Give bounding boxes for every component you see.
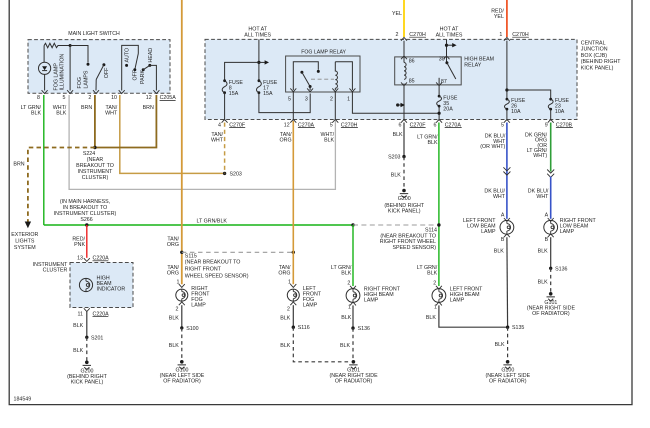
svg-text:BLK: BLK [494, 249, 504, 255]
node fuse36 junction [438, 112, 441, 115]
splice S201 [85, 336, 88, 339]
svg-text:10A: 10A [555, 109, 565, 115]
svg-text:BLK: BLK [324, 138, 334, 144]
svg-text:OF RADIATOR): OF RADIATOR) [489, 379, 527, 385]
svg-text:LAMP: LAMP [450, 298, 465, 304]
illumination lamp symbol [43, 46, 45, 63]
svg-text:BLK: BLK [56, 110, 66, 116]
svg-text:ORG: ORG [167, 242, 179, 248]
svg-text:BOX (CJB): BOX (CJB) [581, 53, 607, 59]
wire BLK dashed to G101 right [550, 268, 552, 292]
svg-text:BLK: BLK [73, 348, 83, 354]
svg-text:1: 1 [499, 32, 502, 38]
ground G200 left [85, 361, 89, 365]
svg-text:S100: S100 [186, 326, 198, 332]
splice S114 [437, 223, 440, 226]
svg-text:SPEED SENSOR): SPEED SENSOR) [392, 245, 436, 251]
svg-text:LAMP: LAMP [364, 298, 379, 304]
wire YEL from top [403, 0, 405, 37]
wire dashed link to S114 [353, 224, 439, 226]
svg-text:SYSTEM: SYSTEM [14, 245, 36, 251]
wire relay pin 5 to C270A-12 [292, 92, 294, 120]
svg-text:5: 5 [63, 95, 66, 101]
svg-text:PARK: PARK [140, 70, 146, 84]
svg-text:OFF: OFF [104, 67, 110, 78]
wire TAN/ORG dashed branch to left fog [182, 251, 293, 253]
central junction box [205, 39, 577, 119]
svg-text:6: 6 [434, 122, 437, 128]
svg-text:9: 9 [545, 122, 548, 128]
svg-text:2: 2 [330, 97, 333, 103]
svg-text:2: 2 [347, 280, 350, 286]
svg-text:2: 2 [176, 307, 179, 313]
wire park to head [143, 65, 150, 69]
fuse 17 15A [258, 79, 261, 82]
hbr switch blade [445, 61, 448, 64]
svg-text:S266: S266 [80, 217, 92, 223]
svg-text:CLUSTER): CLUSTER) [82, 175, 109, 181]
ground G100 left of radiator [180, 360, 184, 364]
wire BLK right fog to S100 [181, 305, 183, 328]
svg-text:PNK: PNK [74, 242, 85, 248]
fuse 8 15A [223, 79, 226, 82]
wire LT GRN/BLK C270A-6 to left high beam [438, 123, 440, 287]
svg-text:FOG LAMP: FOG LAMP [53, 63, 59, 91]
splice S115 [180, 251, 183, 254]
svg-text:S136: S136 [358, 326, 370, 332]
svg-text:OF RADIATOR): OF RADIATOR) [163, 379, 201, 385]
wire TAN/ORG from top of page [181, 0, 183, 284]
switch blade pin 2 [96, 65, 104, 80]
svg-text:S201: S201 [91, 335, 103, 341]
svg-text:8: 8 [37, 95, 40, 101]
relay switch blade [300, 71, 303, 74]
svg-text:10A: 10A [511, 109, 521, 115]
svg-text:4: 4 [218, 122, 221, 128]
wire BLK left fog to S116 [292, 305, 294, 327]
wire junction to fog contact [70, 46, 88, 63]
svg-text:(OR WHT): (OR WHT) [480, 144, 505, 150]
wire fuse 17 to relay pin 3 [259, 93, 310, 113]
wire LT GRN/BLK drop to right high beam [352, 225, 354, 286]
wire TAN/ORG from C270A-12 to left fog lamp [292, 121, 294, 284]
wire TAN/WHT from pin 10 [120, 95, 225, 173]
svg-text:BLK: BLK [340, 343, 350, 349]
splice S224 [93, 146, 96, 149]
inline connector left low beam [503, 167, 510, 175]
hbr pin 87 [438, 78, 440, 85]
svg-text:WHT: WHT [105, 110, 118, 116]
svg-text:G200: G200 [398, 196, 411, 202]
svg-text:A: A [545, 212, 549, 218]
svg-text:BLK: BLK [538, 249, 548, 255]
svg-text:ALL TIMES: ALL TIMES [436, 33, 463, 39]
wire resistor to junction [61, 45, 70, 47]
auto contact dot [125, 64, 128, 67]
wire LT GRN/BLK from pin 8 [43, 95, 45, 225]
svg-text:(NEAR BREAKOUT TO: (NEAR BREAKOUT TO [185, 259, 241, 265]
wire DK BLU/WHT to right low beam [550, 177, 552, 219]
svg-text:ORG: ORG [278, 270, 290, 276]
svg-text:S203: S203 [230, 171, 242, 177]
wire BLK right high beam to S136 [352, 305, 354, 328]
svg-text:15A: 15A [263, 91, 273, 97]
svg-text:BLK: BLK [341, 270, 351, 276]
svg-text:S135: S135 [512, 325, 524, 331]
wire BRN from pin 12 [95, 95, 156, 148]
svg-text:YEL: YEL [392, 11, 402, 17]
wire relay pin 1 to fuse 36 node [352, 92, 439, 114]
svg-text:LAMPS: LAMPS [84, 70, 90, 88]
svg-text:YEL: YEL [494, 14, 504, 20]
wire C270H-1 to low beam fuses [506, 41, 508, 99]
svg-text:85: 85 [409, 79, 415, 85]
wire BLK right low beam to S136 [550, 237, 552, 268]
wire BLK dashed to G200 [86, 337, 88, 360]
svg-text:A: A [501, 212, 505, 218]
wire 85 to C270F-6 [403, 86, 405, 120]
wire DK BLU/WHT to left low beam [506, 123, 508, 219]
park contact dot [142, 68, 145, 71]
node dot right high beam tap [351, 223, 354, 226]
fog lamps contact dot [87, 63, 90, 66]
svg-text:30: 30 [439, 57, 445, 63]
svg-text:BLK: BLK [341, 315, 351, 321]
pin arrows at switch bottom [42, 90, 160, 93]
svg-text:LIGHTS: LIGHTS [15, 239, 35, 245]
svg-text:LAMP: LAMP [560, 229, 575, 235]
wire LT GRN/BLK horizontal main [44, 224, 353, 226]
ground G100 right column [506, 360, 510, 364]
svg-text:BLK: BLK [280, 315, 290, 321]
ground G200 right [402, 189, 406, 193]
wire WHT/BLK from pin 5 [69, 95, 335, 189]
svg-text:FOG LAMP RELAY: FOG LAMP RELAY [301, 49, 346, 55]
svg-text:13: 13 [77, 256, 83, 262]
svg-text:2: 2 [396, 32, 399, 38]
fuse 26 10A [506, 98, 509, 101]
svg-text:RIGHT FRONT: RIGHT FRONT [185, 266, 222, 272]
wire BLK left high beam to S135 [439, 305, 508, 327]
svg-text:KICK PANEL): KICK PANEL) [388, 209, 421, 215]
wire BLK left low beam to S135 [506, 237, 509, 327]
relay pin arrows [290, 88, 355, 91]
splice S135 [506, 326, 509, 329]
svg-text:(BEHIND RIGHT: (BEHIND RIGHT [581, 59, 621, 65]
high beam indicator lamp [79, 278, 92, 291]
wire BLK cluster to S201 [86, 312, 88, 338]
svg-text:WHT): WHT) [533, 153, 547, 159]
svg-text:FOG: FOG [77, 77, 83, 88]
relay dashed actuator link [311, 78, 334, 80]
splice S203 right [402, 155, 405, 158]
relay pin 5 contact [293, 62, 318, 90]
resistor (fog lamp illumination) [44, 43, 61, 47]
wire relay pin 2 to C270H-5 [334, 92, 336, 120]
wire BLK C270F-6 to S203 [403, 123, 405, 157]
wire BLK dashed to G100 [181, 328, 183, 360]
splice S116 [292, 326, 295, 329]
svg-text:12: 12 [284, 122, 290, 128]
wire BLK dashed to G100 [507, 327, 509, 360]
svg-text:1: 1 [348, 305, 351, 311]
svg-text:5: 5 [330, 122, 333, 128]
wire BRN dashed to exterior lights [28, 148, 95, 222]
svg-text:184549: 184549 [14, 397, 32, 403]
connector chevrons at CJB bottom [222, 119, 554, 122]
svg-text:BLK: BLK [495, 342, 505, 348]
hbr coil [403, 41, 405, 63]
wire DK GRN/ORG from fuse 23 [550, 123, 552, 172]
svg-text:2: 2 [88, 95, 91, 101]
wire TAN/WHT dashed C270F-4 to S203 [224, 123, 226, 174]
selector frame to pin 10 [122, 45, 139, 90]
fuse 23 10A [549, 98, 552, 101]
svg-text:WHT: WHT [493, 194, 506, 200]
svg-text:20A: 20A [443, 107, 453, 113]
svg-text:1: 1 [434, 305, 437, 311]
svg-text:ORG: ORG [280, 138, 292, 144]
ground G101 right column [549, 292, 553, 296]
ground G101 right of radiator [352, 360, 356, 364]
wire hot feed [258, 39, 260, 80]
fuse 36 20A [438, 95, 441, 98]
off contact dot [102, 63, 105, 66]
svg-text:CENTRAL: CENTRAL [581, 40, 606, 46]
svg-text:BLK: BLK [169, 343, 179, 349]
wire BLK dashed to G101 [293, 327, 351, 362]
svg-text:LAMP: LAMP [481, 229, 496, 235]
svg-text:LAMP: LAMP [191, 303, 206, 309]
svg-text:ORG: ORG [167, 270, 179, 276]
svg-text:BRN: BRN [143, 105, 154, 111]
svg-text:BLK: BLK [280, 343, 290, 349]
svg-text:BRN: BRN [13, 162, 24, 168]
svg-text:RELAY: RELAY [464, 62, 481, 68]
wire 87 to fuse 36 [438, 86, 440, 96]
svg-text:87: 87 [441, 79, 447, 85]
wire RED/YEL from top [506, 0, 508, 37]
svg-text:MAIN LIGHT SWITCH: MAIN LIGHT SWITCH [68, 31, 120, 37]
splice S203 (tan) [223, 172, 226, 175]
svg-text:OF RADIATOR): OF RADIATOR) [532, 311, 570, 317]
wire BRN from pin 2 [94, 95, 96, 148]
svg-text:86: 86 [409, 58, 415, 64]
svg-text:BLK: BLK [426, 315, 436, 321]
splice S136 right [549, 267, 552, 270]
svg-text:BLK: BLK [538, 280, 548, 286]
wire RED/PNK [86, 225, 88, 258]
hbr pin 30 feed [446, 39, 448, 62]
svg-text:OFF: OFF [132, 69, 138, 80]
svg-text:11: 11 [78, 311, 84, 317]
relay coil [335, 62, 337, 88]
main light switch box [28, 40, 170, 94]
svg-text:KICK PANEL): KICK PANEL) [581, 66, 614, 72]
wire junction to pin 5 [69, 46, 71, 91]
svg-text:LT GRN/BLK: LT GRN/BLK [197, 219, 228, 225]
svg-text:AUTO: AUTO [125, 48, 131, 63]
svg-text:BLK: BLK [73, 323, 83, 329]
svg-text:B: B [501, 237, 505, 243]
svg-text:WHEEL SPEED SENSOR): WHEEL SPEED SENSOR) [185, 273, 249, 279]
svg-text:LAMP: LAMP [303, 303, 318, 309]
selector blade to off [135, 54, 139, 70]
svg-text:WHT: WHT [211, 138, 224, 144]
svg-text:CLUSTER: CLUSTER [43, 267, 68, 273]
wire bus to fuse 8 [225, 62, 259, 80]
svg-text:OF RADIATOR): OF RADIATOR) [335, 379, 373, 385]
svg-text:2: 2 [433, 280, 436, 286]
svg-text:5: 5 [501, 122, 504, 128]
svg-text:EXTERIOR: EXTERIOR [11, 232, 38, 238]
node branch dot arrow [396, 103, 399, 106]
svg-text:HEAD: HEAD [148, 48, 154, 63]
svg-text:BLK: BLK [393, 132, 403, 138]
svg-text:KICK PANEL): KICK PANEL) [71, 380, 104, 386]
svg-text:WHT: WHT [536, 194, 549, 200]
splice S136 [351, 326, 354, 329]
wire BLK dashed to G200 [403, 157, 405, 189]
wire head to pin 12 [150, 65, 157, 90]
head contact dot [148, 64, 151, 67]
svg-text:5: 5 [288, 97, 291, 103]
svg-text:B: B [545, 237, 549, 243]
svg-text:12: 12 [146, 95, 152, 101]
svg-text:1: 1 [347, 97, 350, 103]
svg-text:10: 10 [111, 95, 117, 101]
svg-text:BLK: BLK [427, 140, 437, 146]
svg-text:6: 6 [398, 122, 401, 128]
svg-text:ILLUMINATION: ILLUMINATION [60, 54, 66, 91]
svg-text:S136: S136 [555, 266, 567, 272]
svg-text:BLK: BLK [427, 270, 437, 276]
svg-text:BLK: BLK [391, 173, 401, 179]
svg-text:3: 3 [305, 97, 308, 103]
arrow to exterior lights system [25, 222, 31, 229]
svg-text:2: 2 [287, 307, 290, 313]
svg-text:BLK: BLK [31, 110, 41, 116]
wire BLK dashed to G101 [352, 328, 354, 360]
inline connector right low beam [547, 170, 554, 178]
instrument cluster box [70, 263, 133, 308]
node junction dot [69, 44, 72, 47]
svg-text:S116: S116 [298, 325, 310, 331]
svg-text:ALL TIMES: ALL TIMES [244, 33, 271, 39]
svg-text:BLK: BLK [169, 315, 179, 321]
svg-text:S203: S203 [388, 155, 400, 161]
splice S100 [180, 326, 183, 329]
svg-text:15A: 15A [229, 91, 239, 97]
svg-text:INDICATOR: INDICATOR [97, 287, 126, 293]
svg-text:JUNCTION: JUNCTION [581, 47, 608, 53]
node hot bus dot with arrow [257, 61, 260, 64]
svg-text:BRN: BRN [81, 105, 92, 111]
